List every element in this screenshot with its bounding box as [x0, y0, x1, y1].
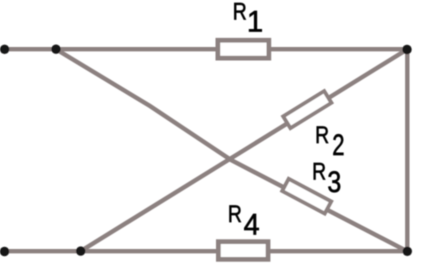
svg-text:R: R: [228, 201, 242, 228]
svg-text:2: 2: [332, 129, 344, 162]
svg-text:R: R: [233, 0, 247, 26]
svg-text:1: 1: [247, 6, 263, 39]
svg-text:R: R: [315, 122, 329, 149]
svg-text:4: 4: [244, 209, 260, 242]
svg-text:R: R: [312, 159, 326, 186]
svg-text:3: 3: [327, 166, 341, 199]
